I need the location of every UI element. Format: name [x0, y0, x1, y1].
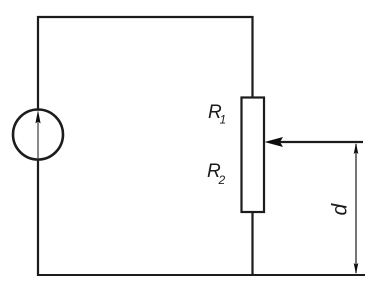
svg-text:d: d	[329, 203, 352, 216]
wiper arrow: horizontal line	[276, 141, 363, 143]
resistor / potentiometer body	[242, 98, 265, 213]
current source I: arrowhead	[35, 110, 40, 124]
wire: top horizontal	[37, 16, 254, 18]
current source I: arrow shaft	[37, 121, 39, 158]
wiper arrow: arrowhead pointing left at resistor	[265, 137, 284, 147]
dimension line d: upper arrowhead	[354, 143, 359, 154]
wire: right vertical lower segment	[251, 212, 253, 276]
wire: bottom horizontal	[37, 274, 365, 276]
dimension line d: lower arrowhead	[354, 263, 359, 274]
svg-text:2: 2	[218, 173, 226, 187]
svg-text:1: 1	[220, 113, 227, 127]
wire: right vertical upper segment	[251, 16, 253, 98]
dimension line d: vertical line	[355, 144, 357, 273]
wire: left vertical upper segment	[37, 16, 39, 110]
wire: left vertical lower segment	[37, 159, 39, 276]
current source I: circle	[13, 110, 63, 160]
